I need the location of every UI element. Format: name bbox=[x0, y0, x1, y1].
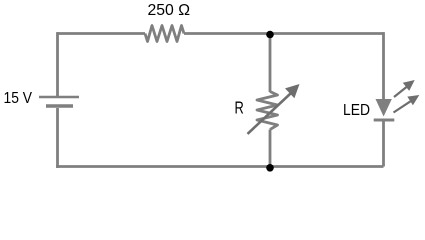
resistor R1 250 ohm bbox=[145, 26, 184, 42]
battery B1 positive plate bbox=[39, 96, 79, 99]
rheostat arrow head bbox=[285, 84, 300, 98]
LED light arrow upper head bbox=[403, 80, 415, 91]
wire: right vertical lower (LED cathode to bottom-right corner) bbox=[382, 122, 385, 167]
wire: bottom horizontal bbox=[56, 165, 383, 168]
junction node bottom bbox=[266, 164, 274, 172]
LED D1 cathode bar bbox=[374, 119, 395, 122]
svg-text:R: R bbox=[235, 98, 244, 118]
LED light arrow upper shaft bbox=[394, 87, 407, 97]
LED light arrow lower shaft bbox=[394, 101, 411, 112]
LED light arrow lower head bbox=[407, 95, 419, 105]
rheostat R zigzag bbox=[257, 92, 278, 130]
wire: right vertical upper (top-right corner to LED anode) bbox=[382, 32, 385, 99]
battery B1 negative plate bbox=[46, 104, 73, 108]
svg-text:250 Ω: 250 Ω bbox=[148, 2, 191, 19]
rheostat arrow shaft bbox=[248, 94, 291, 134]
wire: top-left to resistor bbox=[58, 32, 146, 35]
wire: middle branch upper (top junction to rheostat) bbox=[269, 35, 272, 93]
LED D1 anode triangle bbox=[376, 99, 392, 117]
wire: middle branch lower (rheostat to bottom junction) bbox=[269, 130, 272, 167]
svg-text:LED: LED bbox=[343, 102, 370, 119]
junction node top bbox=[266, 31, 274, 39]
wire: left upper (top-left corner down to battery) bbox=[56, 32, 59, 96]
svg-text:15 V: 15 V bbox=[4, 90, 33, 107]
wire: resistor to top-right bbox=[184, 32, 384, 35]
wire: left lower (battery down to bottom-left corner) bbox=[56, 108, 59, 168]
